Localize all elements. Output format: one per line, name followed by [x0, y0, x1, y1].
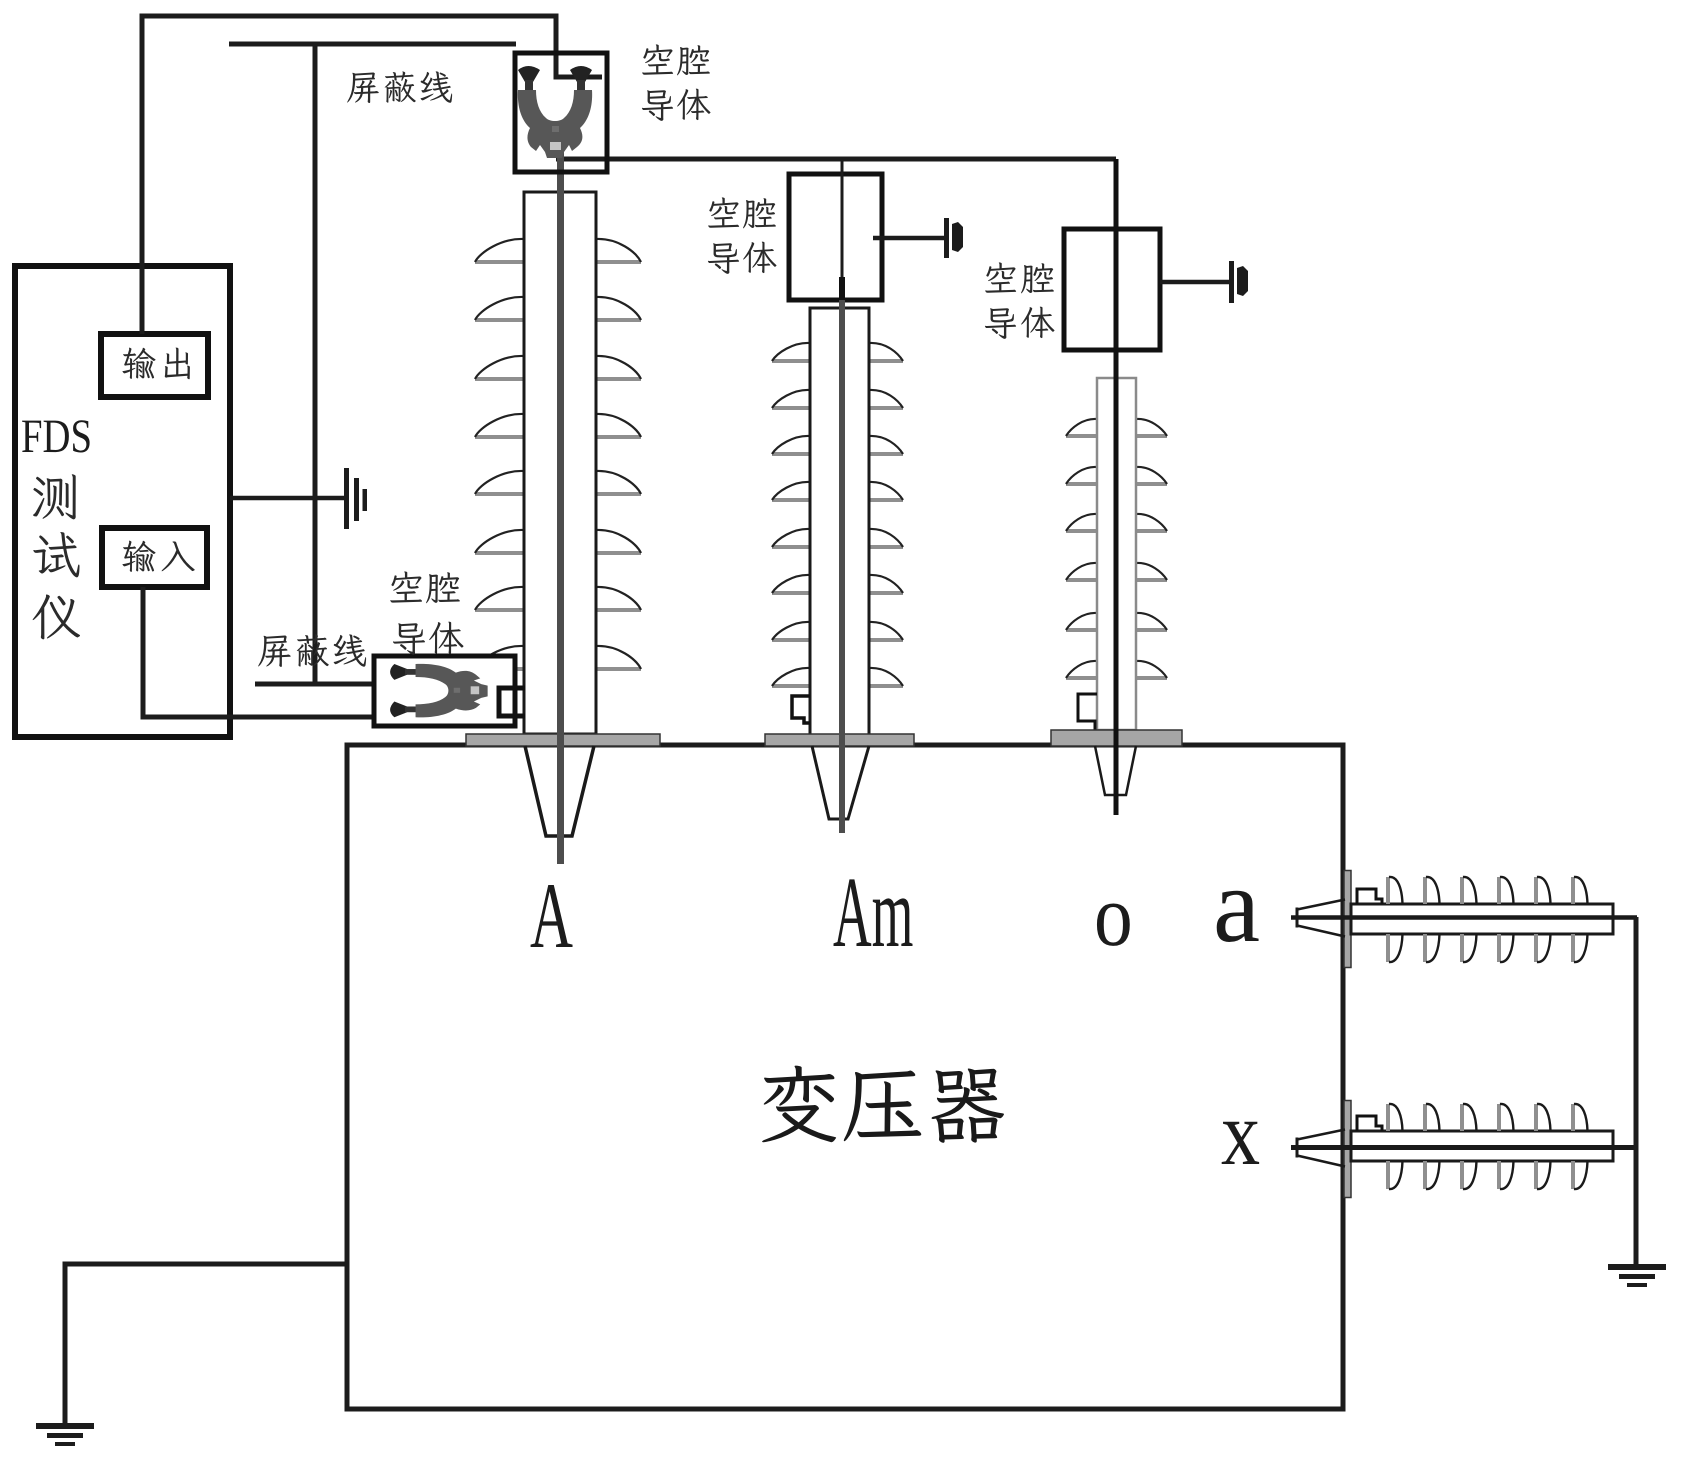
label 空腔导体 box1 line1 [642, 44, 710, 75]
terminal label A [531, 885, 573, 947]
bushing A center conductor [557, 148, 564, 864]
wire: input to cavity box 2 lower lead [143, 587, 374, 717]
output terminal box 输出 [101, 334, 208, 397]
bushing Am upper lead [841, 159, 844, 277]
label 试 [33, 532, 79, 577]
label 空腔导体 box2 line1 [390, 571, 460, 603]
clamp icon in box 2 (rotated) [390, 664, 488, 717]
bushing Am lower cone [812, 746, 869, 819]
terminal label x [1222, 1122, 1259, 1164]
cavity conductor box 1 空腔导体 [515, 53, 607, 172]
label 测 [33, 474, 76, 519]
bushing o tube [1097, 378, 1136, 730]
wire: FDS ground lead [230, 496, 345, 501]
wire: output to cavity conductor box 1 [142, 16, 602, 334]
bushing a tube [1351, 904, 1613, 934]
label 空腔导体 box4 line2 [985, 307, 1055, 339]
bushing o step notch [1078, 694, 1097, 730]
bushing A lower cone [525, 746, 594, 836]
label 空腔导体 box2 line2 [393, 622, 464, 655]
FDS tester box FDS测试仪 [15, 266, 230, 737]
label 空腔导体 box4 line1 [985, 262, 1054, 293]
bushing a sheds [1386, 877, 1390, 904]
wire: bushing a to ground via bushing x [1634, 917, 1639, 1264]
label 变压器 [762, 1066, 1004, 1143]
transformer tank 变压器 box [347, 745, 1343, 1409]
bushing x sheds [1386, 1104, 1390, 1131]
input terminal box 输入 [102, 528, 207, 587]
bushing Am step notch [792, 696, 810, 723]
bushing o conductor (from top wire) [1114, 159, 1119, 815]
label 空腔导体 box3 line1 [708, 197, 776, 228]
label 输出 [122, 348, 189, 380]
bushing o sheds [1066, 434, 1097, 438]
terminal label Am [834, 879, 913, 946]
label 空腔导体 box3 line2 [708, 242, 777, 274]
bushing x tube [1351, 1131, 1613, 1161]
shield terminal symbol (bar+plug) [944, 218, 949, 258]
bushing x step notch [1357, 1116, 1382, 1131]
bushing Am tube [810, 308, 869, 735]
bushing A tube [524, 192, 596, 734]
label FDS [22, 420, 90, 452]
clamp icon in box 1 [518, 66, 592, 158]
bushing Am sheds [772, 359, 810, 363]
ground symbol bottom right [1608, 1264, 1666, 1270]
bushing o lower cone [1095, 746, 1136, 795]
bushing a conductor [1291, 915, 1637, 920]
wire from o box to shield terminal [1160, 280, 1229, 285]
bushing Am cavity box 空腔导体 [789, 174, 882, 300]
bushing o cavity box 空腔导体 [1064, 229, 1160, 350]
wire from Am box to shield terminal [873, 236, 944, 241]
ground symbol (rotated) near FDS [344, 468, 349, 529]
label 仪 [33, 594, 80, 639]
terminal label o [1097, 904, 1130, 946]
bushing Am conductor [839, 300, 845, 833]
wire: bushing1 head to bushing3 head [556, 157, 1116, 162]
bushing x left cone [1296, 1138, 1299, 1158]
shield terminal symbol (bar+plug) right [1229, 261, 1234, 303]
wire: shielded line vertical [313, 44, 318, 684]
bushing a left cone [1296, 908, 1299, 928]
bushing x conductor [1291, 1145, 1637, 1150]
bushing A sheds [475, 260, 524, 264]
label 输入 [122, 541, 194, 572]
ground symbol bottom left [36, 1423, 94, 1429]
bushing o flange [1051, 730, 1182, 746]
cavity conductor box 2 空腔导体 [374, 656, 515, 726]
label 屏蔽线 lower [258, 634, 366, 667]
bushing a flange [1344, 871, 1351, 968]
label 屏蔽线 top [347, 71, 452, 103]
terminal label a [1217, 891, 1259, 942]
bracket on box 2 [499, 688, 525, 716]
wire: tank left to ground [65, 1264, 347, 1423]
label 空腔导体 box1 line2 [642, 89, 711, 121]
bushing x flange [1344, 1101, 1351, 1198]
bushing A flange [466, 734, 660, 746]
wire: shielded line to cavity box 2 [255, 682, 374, 687]
wire: shielded line top horizontal [229, 42, 516, 47]
bushing Am flange [765, 734, 914, 746]
bushing a step notch [1357, 889, 1382, 904]
